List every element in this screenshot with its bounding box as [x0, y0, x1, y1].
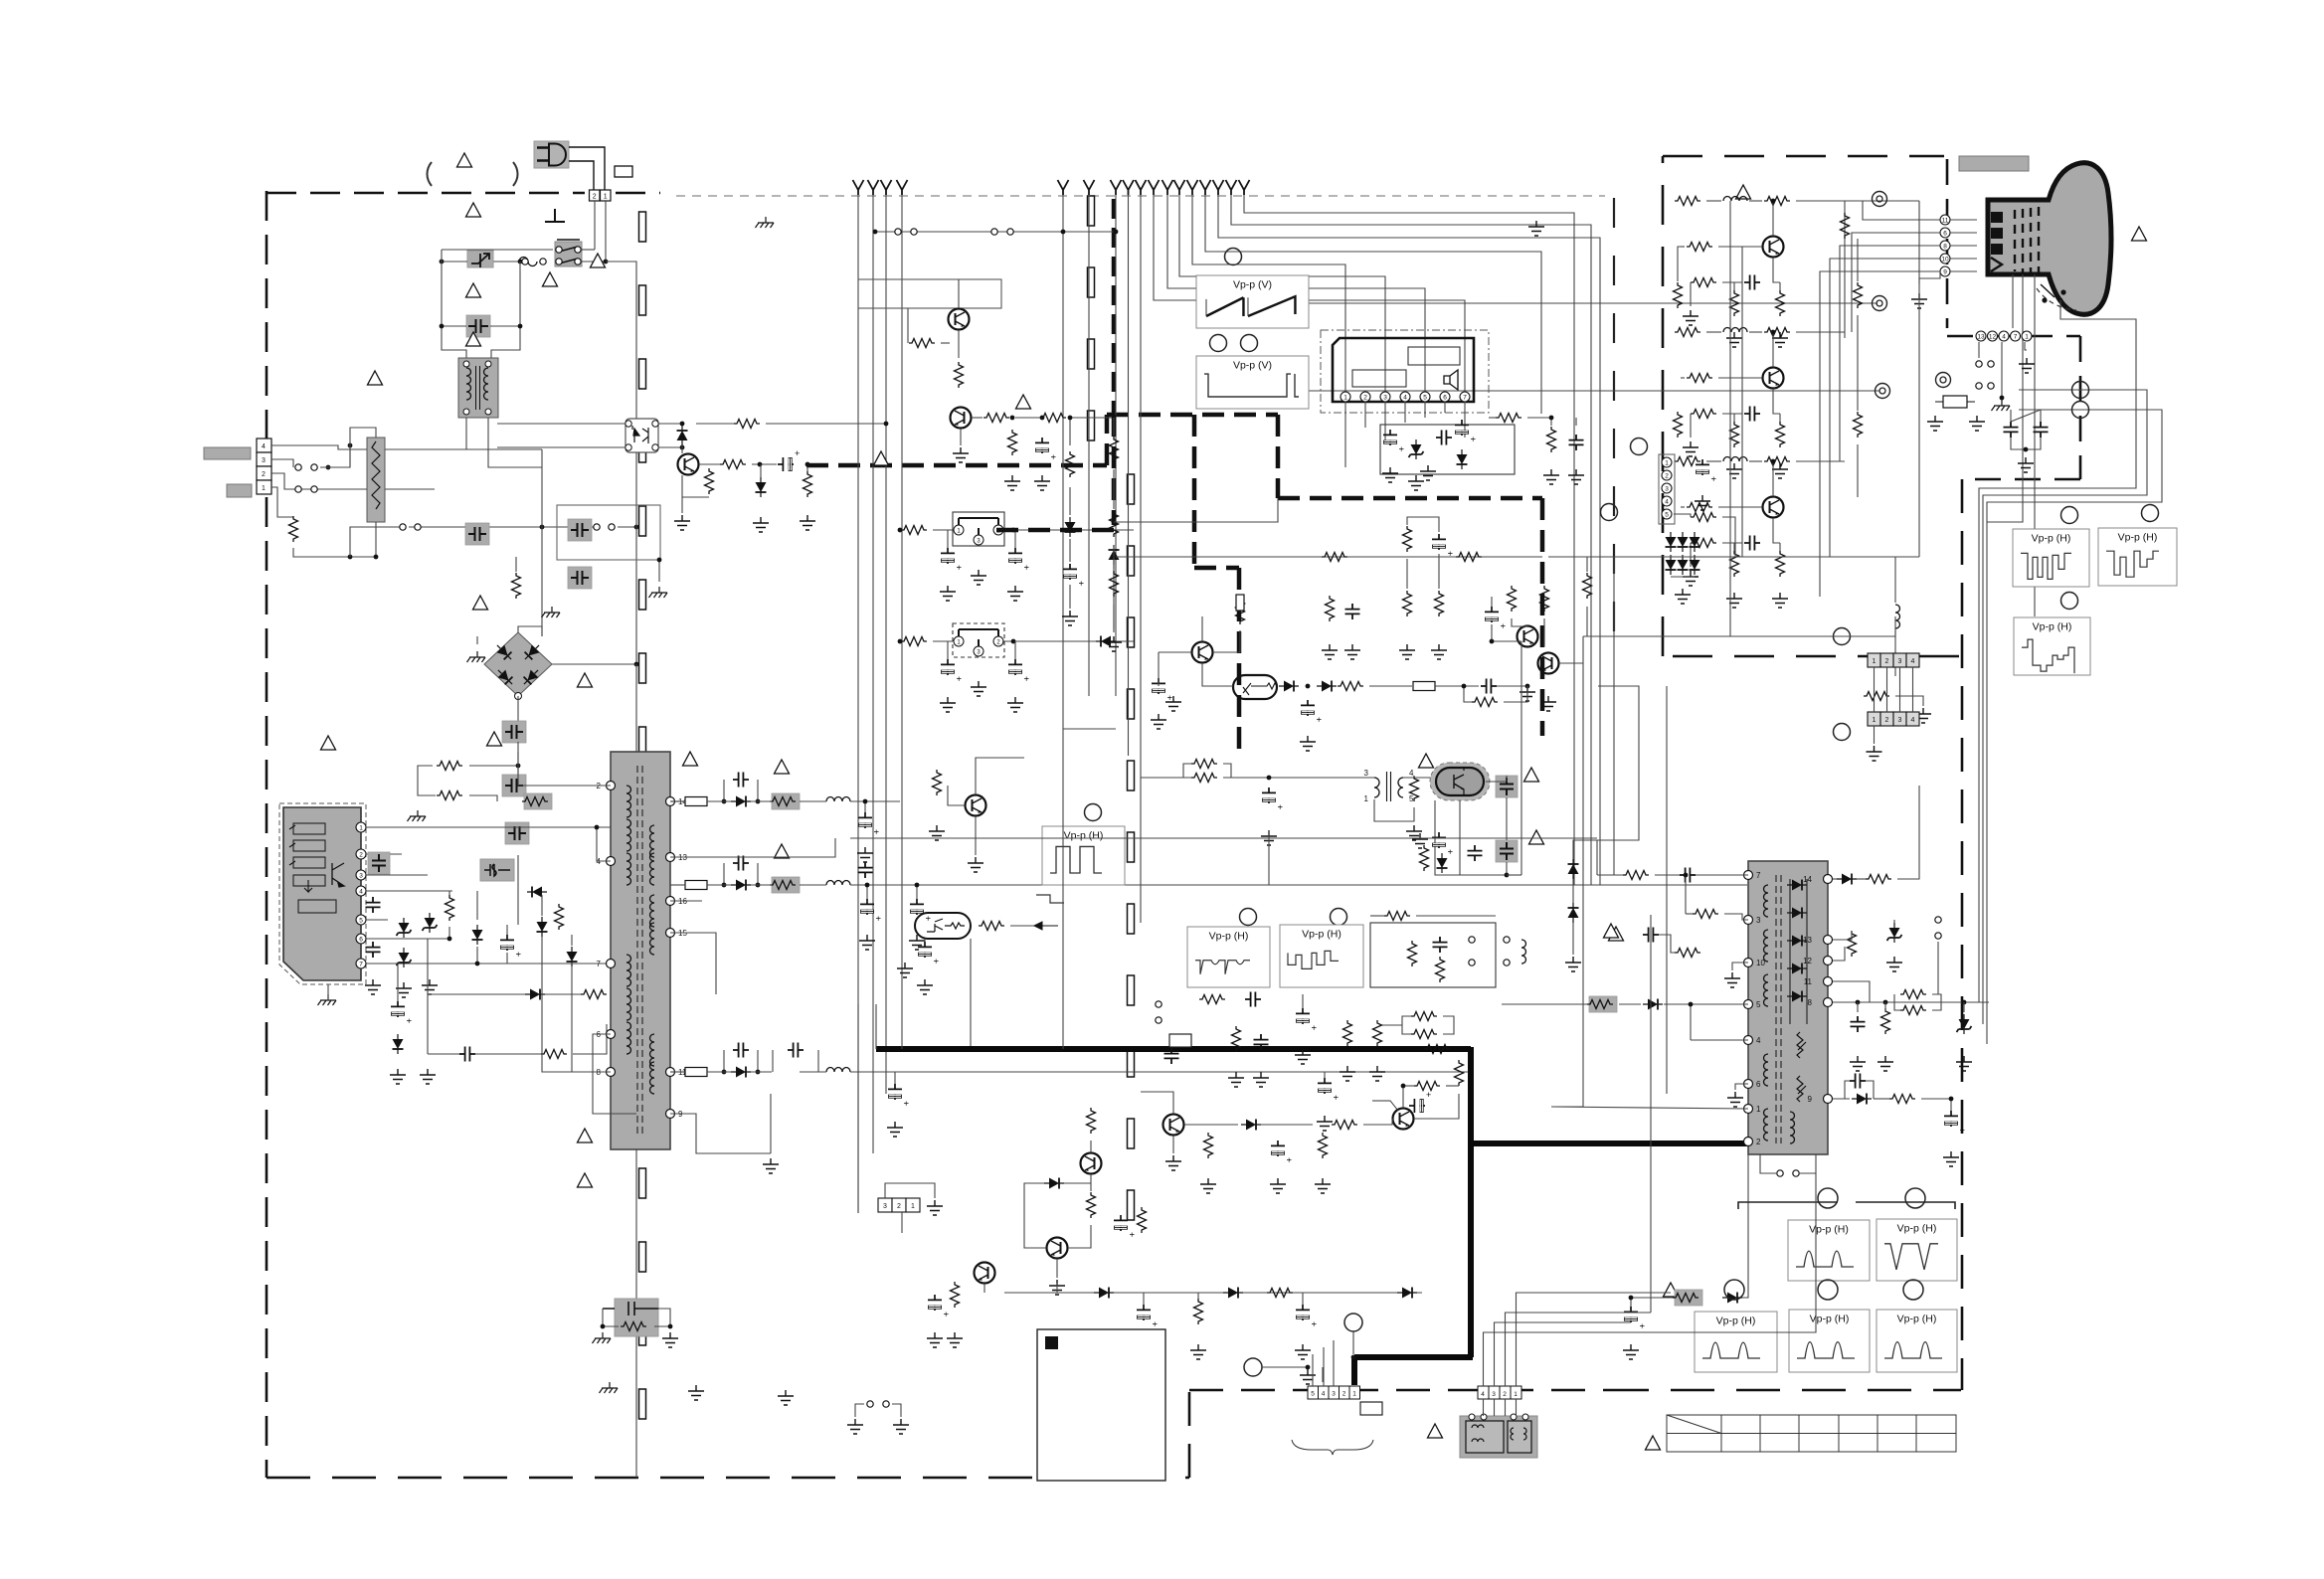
wire wire: [418, 766, 436, 795]
svg-text:1: 1: [359, 824, 363, 831]
svg-text:13: 13: [1977, 333, 1985, 340]
svg-text:11: 11: [1942, 217, 1949, 224]
crt board boundary top-left: [1663, 156, 1944, 656]
wire video signal line: [1218, 195, 1600, 885]
IC internal transistor: [332, 863, 344, 887]
ground: [1062, 611, 1078, 625]
wire wire: [1014, 530, 1016, 548]
wire wire: [1857, 444, 1859, 497]
junction: [2058, 298, 2063, 303]
svg-text:3: 3: [883, 1203, 887, 1210]
wire wire: [475, 1053, 541, 1055]
wire wire: [1069, 418, 1071, 445]
wire AC line: [569, 161, 594, 191]
wire wire: [757, 780, 759, 801]
resistor R82: [1776, 290, 1785, 316]
wire wire: [366, 826, 611, 828]
waveform box Vp-p (H) hsync: [1187, 927, 1270, 987]
flyback winding: [1764, 1109, 1769, 1140]
wire wire: [1069, 539, 1071, 562]
wire wire: [1572, 879, 1574, 903]
flywheel mark: [1372, 1101, 1398, 1111]
antenna arrow: [1149, 180, 1160, 195]
wire wire: [1114, 498, 1278, 522]
warning mark: [1419, 754, 1434, 768]
inductor L2: [826, 881, 850, 886]
junction: [1949, 1097, 1954, 1102]
open terminal: [575, 247, 581, 253]
resistor R36: [1403, 591, 1412, 616]
open terminal: [1988, 383, 1994, 389]
wire wire: [271, 473, 435, 489]
junction: [1068, 416, 1073, 421]
ground: [662, 1332, 678, 1347]
wire wire: [1706, 200, 1721, 202]
wire wire: [654, 1309, 670, 1326]
wire video signal line: [1231, 195, 1591, 885]
junction: [1306, 684, 1311, 689]
ground: [1772, 332, 1788, 347]
transformer core: [637, 766, 642, 1138]
antenna arrow: [1162, 180, 1173, 195]
wire wire: [976, 758, 1024, 794]
wire wire: [1796, 460, 1845, 462]
antenna arrow: [881, 180, 892, 195]
wire wire: [1733, 414, 1735, 422]
junction: [326, 465, 331, 470]
wire wire: [1857, 239, 1859, 281]
pin 7: [356, 959, 366, 968]
ceramic filter X1: [953, 512, 1004, 546]
junction: [1629, 1296, 1634, 1301]
junction: [516, 764, 521, 769]
junction: [1771, 459, 1776, 464]
resistor R12: [720, 460, 746, 469]
ground: [968, 857, 983, 872]
wire wire: [409, 526, 597, 528]
connector CN901 pin 3: [257, 452, 271, 466]
wire wire: [866, 885, 868, 899]
HV rectifier diode: [1787, 964, 1807, 974]
svg-text:1: 1: [604, 193, 608, 200]
wire wire: [1268, 830, 1270, 885]
connector CN403 pin 4: [1319, 1386, 1330, 1399]
resistor R8: [541, 1050, 567, 1059]
resistor R66: [1623, 871, 1649, 880]
ground: [1927, 416, 1943, 431]
wire wire: [901, 1212, 903, 1233]
wire wire: [1504, 686, 1527, 702]
wire wire: [1231, 777, 1374, 779]
resistor R29: [1540, 586, 1549, 612]
antenna arrow: [897, 180, 908, 195]
ground: [1683, 441, 1698, 456]
clamp diode D210: [1096, 636, 1116, 647]
open terminal: [1504, 937, 1510, 943]
wire wire: [1002, 529, 1134, 531]
diode D23: [1397, 1288, 1417, 1299]
waveform box Vp-p (H) vnotch: [1877, 1219, 1957, 1281]
electrolytic capacitor C27: [1008, 659, 1031, 681]
wire wire: [350, 428, 376, 467]
HV rectifier diode: [1787, 908, 1807, 919]
capacitor C8: [366, 897, 381, 913]
pin 4: [356, 886, 366, 896]
wire wire: [1520, 641, 1522, 875]
capacitor C13: [733, 773, 749, 788]
ground: [1165, 696, 1181, 711]
crt board boundary bottom: [1663, 655, 1959, 658]
line filter FL401: [1460, 1414, 1537, 1458]
wire rail: [707, 884, 731, 886]
warning mark: [775, 760, 790, 774]
wire wire: [1950, 1099, 1952, 1111]
electrolytic capacitor C26: [941, 659, 964, 681]
isolation slot: [1128, 761, 1135, 790]
antenna arrow: [1123, 180, 1134, 195]
diode D27: [1837, 874, 1857, 885]
wire wire: [1416, 915, 1496, 917]
transistor Q10: [1081, 1153, 1102, 1174]
wire wire: [1010, 925, 1034, 927]
connector CN901 pin 2: [257, 466, 271, 480]
ground: [1727, 1092, 1743, 1107]
ground: [1568, 469, 1584, 484]
wire CRT pin wire: [1950, 219, 1977, 221]
svg-text:4: 4: [1403, 394, 1407, 401]
pin 8: [1940, 241, 1950, 251]
warning mark: [543, 272, 558, 286]
electrolytic capacitor C18: [910, 899, 933, 921]
resistor R37: [1435, 591, 1444, 616]
inductor L3: [826, 1068, 850, 1073]
open terminal: [609, 524, 615, 530]
electrolytic capacitor C35: [1152, 678, 1174, 700]
transistor Q15: [1763, 497, 1784, 518]
wire neckboard rail: [1729, 201, 1731, 636]
wire wire: [1090, 1140, 1092, 1152]
wire wire: [476, 636, 478, 644]
pin 13: [1976, 331, 1986, 341]
isolation boundary vertical: [1112, 199, 1117, 415]
resistor R432 on bus: [1424, 1045, 1450, 1054]
connector pin 4: [1906, 653, 1919, 667]
junction: [756, 883, 761, 888]
resistor R33: [1110, 571, 1119, 597]
resistor R23: [1547, 427, 1556, 452]
wire wire: [1631, 1297, 1673, 1299]
wire wire: [894, 1072, 896, 1084]
flyback pin 14: [1824, 875, 1833, 884]
resistor R30: [1066, 451, 1075, 477]
wire wire: [1586, 557, 1588, 572]
svg-text:11: 11: [1804, 977, 1813, 986]
wire signal line: [1198, 390, 1879, 392]
resistor R88: [1776, 422, 1785, 447]
wire rail: [850, 800, 900, 802]
wire wire: [1444, 402, 1446, 413]
ground: [1322, 644, 1338, 659]
resistor R42: [1410, 776, 1419, 801]
resistor R3: [437, 791, 462, 800]
ground: [1165, 1155, 1181, 1170]
connector body: [227, 484, 252, 497]
resistor R22: [1496, 414, 1521, 423]
ground: [1300, 1369, 1316, 1384]
junction: [898, 528, 903, 533]
resistor R41: [1191, 774, 1217, 783]
svg-text:9: 9: [1943, 268, 1947, 275]
wire wire: [1919, 271, 1940, 284]
resistor R69: [1675, 949, 1700, 958]
antenna arrow: [1058, 180, 1069, 195]
harness brace: [1292, 1440, 1373, 1455]
svg-text:7: 7: [597, 960, 602, 968]
resistor R94: [1776, 551, 1785, 577]
wire wire: [1749, 331, 1762, 333]
isolation slot: [1088, 196, 1095, 226]
diode D1: [537, 917, 548, 937]
vertical IC IC401: [1233, 675, 1277, 699]
wire wire: [2001, 342, 2003, 398]
electrolytic capacitor C49: [1137, 1305, 1160, 1326]
antenna arrow: [853, 180, 864, 195]
wire wire: [1659, 935, 1675, 953]
wire rail: [707, 800, 731, 802]
resistor R84: [1764, 328, 1790, 337]
resistor R48: [979, 922, 1004, 931]
svg-text:5: 5: [359, 917, 363, 924]
capacitor C34: [1481, 679, 1497, 694]
wire wire: [428, 1053, 459, 1055]
wire wire: [857, 470, 859, 472]
wire AC line: [605, 201, 607, 262]
ceramic filter X2: [953, 623, 1004, 657]
wire wire: [1015, 417, 1040, 419]
resistor R96: [1674, 412, 1683, 438]
svg-text:1: 1: [1873, 658, 1877, 665]
ground: [887, 1122, 903, 1137]
antenna arrow: [1136, 180, 1147, 195]
open terminal: [1976, 361, 1982, 367]
junction: [348, 555, 353, 560]
junction: [634, 662, 639, 667]
flyback transformer T471 body: [1748, 861, 1828, 1154]
resistor R92: [1691, 539, 1716, 548]
antenna arrow: [1226, 180, 1237, 195]
wire wire: [958, 330, 960, 358]
svg-text:3: 3: [1898, 658, 1902, 665]
antenna arrow: [1239, 180, 1250, 195]
capacitor C43: [1433, 937, 1448, 953]
svg-text:1: 1: [1756, 1105, 1761, 1114]
isolation slot: [639, 1389, 646, 1419]
resistor R31: [1110, 437, 1119, 462]
resistor R57: [1087, 1192, 1096, 1218]
junction: [634, 525, 639, 530]
open terminal: [991, 229, 997, 235]
diode D6: [472, 925, 483, 945]
pin 5: [1662, 509, 1672, 519]
capacitor C20: [788, 1043, 804, 1058]
wire wire: [1344, 402, 1346, 467]
ground: [1270, 1178, 1286, 1193]
wire signal line to audio IC: [1167, 195, 1425, 392]
wire wire: [975, 816, 977, 855]
junction: [756, 1070, 761, 1075]
resistor R19: [1008, 430, 1017, 455]
junction: [722, 883, 727, 888]
junction: [1061, 230, 1066, 235]
resistor R32: [1110, 511, 1119, 537]
wire wire: [1491, 597, 1493, 607]
wire wire: [350, 522, 376, 557]
warning mark: [1524, 768, 1539, 782]
test point: [1241, 335, 1258, 352]
wire wire: [724, 1050, 730, 1072]
electrolytic capacitor C51: [928, 1295, 951, 1316]
wire wire: [1760, 1154, 1776, 1173]
isolation slot: [1128, 689, 1135, 719]
wire wire: [1403, 777, 1435, 779]
isolation slot: [1088, 267, 1095, 297]
wire wire: [933, 640, 953, 642]
wire wire: [428, 927, 449, 939]
wire wire: [366, 919, 388, 921]
junction: [668, 1324, 673, 1329]
pin 6: [1440, 392, 1450, 402]
svg-text:4: 4: [1665, 498, 1669, 505]
transformer pin 15: [666, 929, 675, 938]
wire wire: [1664, 1003, 1748, 1005]
open terminal: [1504, 960, 1510, 965]
diode D25: [1568, 859, 1579, 879]
svg-text:4: 4: [1481, 1391, 1485, 1398]
svg-text:Vp-p (H): Vp-p (H): [1897, 1314, 1937, 1325]
wire wire: [1516, 1399, 1518, 1416]
ground: [927, 1332, 943, 1347]
open terminal: [911, 229, 917, 235]
waveform box Vp-p (H) stairs3: [2014, 617, 2090, 675]
wire wire: [1323, 1347, 1325, 1386]
capacitor C56: [1680, 868, 1696, 883]
open terminal: [295, 464, 301, 470]
wire wire: [545, 993, 581, 995]
wire wire: [1495, 1322, 1632, 1386]
wire wire: [1384, 402, 1386, 442]
wire wire: [670, 933, 716, 994]
wire G out wire: [1852, 233, 1940, 332]
wire wire: [1733, 282, 1735, 290]
AFC box: [1370, 923, 1496, 987]
svg-text:3: 3: [1383, 394, 1387, 401]
wire wire: [1655, 874, 1680, 876]
svg-text:Vp-p (H): Vp-p (H): [2032, 533, 2071, 545]
wire wire: [571, 935, 573, 946]
junction: [898, 639, 903, 644]
test point: [1876, 384, 1890, 399]
isolation slot: [639, 1316, 646, 1345]
wire wire: [271, 459, 293, 467]
wire rail: [800, 800, 826, 802]
isolation slot: [1088, 411, 1095, 440]
resistor R2: [437, 762, 462, 771]
parenthesis: [513, 162, 518, 186]
ground: [1850, 1056, 1866, 1071]
svg-text:4: 4: [1409, 769, 1414, 778]
wire wire: [681, 497, 683, 513]
open terminal: [1976, 383, 1982, 389]
waveform box Vp-p (H) stairs2: [2098, 528, 2177, 586]
resistor R72: [1881, 1008, 1890, 1034]
resistor R15: [909, 339, 935, 348]
ground: [953, 447, 969, 462]
wire wire: [933, 529, 953, 531]
isolation slot: [639, 433, 646, 462]
wire rail: [800, 884, 826, 886]
IC internal: [1243, 683, 1277, 695]
test point: [1818, 1280, 1838, 1300]
safety capacitor C39: [1496, 776, 1518, 797]
resistor R62: [1232, 1026, 1241, 1052]
wire wire: [1329, 594, 1331, 596]
transistor Q13: [1763, 237, 1784, 258]
clamp diode: [1666, 532, 1677, 552]
isolation slot: [1128, 1119, 1135, 1148]
wire wire: [1369, 685, 1412, 687]
electrolytic capacitor C21: [888, 1084, 911, 1106]
capacitor C52: [1254, 1034, 1269, 1050]
wire H AFC rail: [1004, 1292, 1422, 1294]
pin 12: [1988, 331, 1998, 341]
resistor R1: [512, 573, 521, 599]
junction: [1351, 1355, 1356, 1360]
electrolytic capacitor C46: [1409, 1090, 1431, 1113]
ground: [847, 1419, 863, 1434]
wire wire: [681, 445, 683, 453]
transformer pin 9: [666, 1110, 675, 1119]
fuse F4: [1413, 682, 1435, 691]
wire wire: [1113, 545, 1115, 569]
flyback HV winding: [1790, 1112, 1795, 1143]
ground: [1943, 1151, 1959, 1166]
chassis ground: [649, 587, 668, 598]
diode D26: [1568, 903, 1579, 923]
svg-text:4: 4: [1911, 658, 1915, 665]
wire wire: [699, 463, 720, 465]
svg-text:2: 2: [1885, 658, 1889, 665]
resistor R58: [1138, 1207, 1147, 1233]
wire wire: [1512, 618, 1527, 626]
wire wire: [1572, 923, 1574, 955]
wire wire: [1735, 1084, 1748, 1090]
svg-text:4: 4: [1911, 717, 1915, 724]
wire wire: [1690, 282, 1692, 306]
wire wire: [960, 429, 962, 445]
ground: [753, 517, 769, 532]
flyback pin 7: [1744, 871, 1753, 880]
wire wire: [1482, 837, 1597, 839]
antenna arrow: [868, 180, 879, 195]
isolation slot: [1128, 975, 1135, 1005]
chassis ground: [467, 651, 486, 662]
diode D2: [567, 947, 578, 966]
test point: [1631, 439, 1648, 455]
wire wire: [506, 953, 508, 964]
waveform box Vp-p (V) sawtooth: [1196, 275, 1309, 328]
wire supply rail: [885, 195, 887, 1094]
chassis ground: [408, 810, 427, 821]
